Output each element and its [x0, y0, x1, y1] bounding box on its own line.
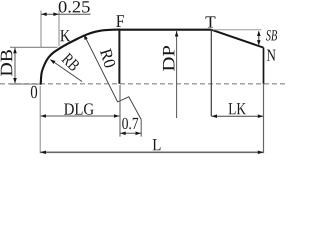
leader line RB — [50, 60, 82, 82]
label 0.25 — [59, 1, 90, 13]
right extension line for 0.7 — [140, 120, 142, 137]
label DP (rotated) — [163, 46, 174, 71]
profile top line F-T — [119, 29, 211, 31]
DB top tick line — [10, 46, 58, 48]
leader line R0 with centre zigzag — [84, 35, 141, 120]
vertical line under F — [118, 30, 120, 84]
dimension 0.25 left extension line — [40, 11, 42, 48]
label RB (rotated) — [61, 52, 80, 71]
left extension line for L — [39, 86, 41, 153]
dimension L line with outward arrows — [40, 151, 263, 153]
DB baseline tick on axis — [10, 83, 41, 85]
label DB (rotated) — [1, 50, 13, 76]
dimension 0.7 line with outward arrows — [120, 132, 141, 134]
dimension 0.25 line with outward arrows — [41, 13, 91, 15]
profile base edge N to axis — [263, 48, 265, 84]
centerline axis — [0, 83, 285, 85]
thin reference line from T rightwards — [213, 29, 262, 31]
profile ogive curve O-K-F — [41, 30, 120, 84]
dimension 0.25 right extension line — [58, 11, 60, 47]
label SB — [266, 30, 277, 40]
dimension SB double arrow — [258, 32, 260, 45]
profile boattail line T-N — [211, 30, 263, 48]
label T — [206, 16, 216, 27]
label F — [116, 15, 124, 27]
dimension LK line with outward arrows — [211, 115, 263, 117]
dimension DLG line with outward arrows — [40, 115, 119, 117]
label N — [267, 50, 276, 61]
label DLG — [64, 103, 94, 114]
label K — [60, 30, 70, 41]
label L — [153, 139, 161, 150]
label 0.7 — [122, 118, 138, 130]
dimension DP vertical line with arrows — [176, 31, 178, 118]
label LK — [229, 103, 246, 114]
extension line below F for 0.7 — [119, 85, 121, 137]
label R0 (rotated) — [100, 48, 116, 68]
label 0 at origin — [31, 86, 37, 98]
vertical extension line under T — [210, 30, 212, 116]
right extension line below N — [263, 84, 265, 153]
dimension DB vertical line with arrows — [14, 48, 16, 84]
